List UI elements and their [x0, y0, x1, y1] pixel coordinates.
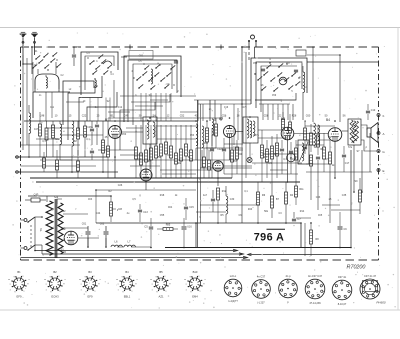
wire osc drop 293: [292, 104, 294, 120]
svg-text:C47: C47: [34, 129, 39, 131]
tuner1 staircase a: [63, 81, 94, 125]
resistor RT5: [155, 146, 158, 158]
antenna A2: [32, 34, 38, 38]
wire bus mid4: [21, 165, 97, 167]
wire bus v5: [220, 104, 222, 121]
tube B2: [224, 126, 236, 138]
svg-text:B2: B2: [53, 270, 57, 274]
svg-text:C16: C16: [224, 107, 229, 109]
fuse C45: [31, 198, 40, 202]
tube B5 (triode): [213, 161, 223, 171]
wire conv h1: [120, 95, 196, 97]
wire mid extra h1: [46, 127, 72, 129]
wire mid h12: [294, 133, 328, 135]
resistor R2: [45, 128, 48, 140]
svg-text:C37 4n 47: C37 4n 47: [364, 274, 377, 278]
wire ps v7: [95, 190, 97, 196]
tuner1 staircase d: [87, 92, 117, 121]
osc switch contact 1: [258, 76, 262, 80]
coil L5: [202, 126, 204, 130]
svg-text:su: su: [150, 279, 152, 281]
wire T6 tap S2: [63, 213, 88, 215]
resistor R26: [323, 147, 326, 159]
wire ps h1: [63, 227, 88, 229]
resistor R3: [52, 125, 55, 138]
socket diagram B6 (dense): [360, 279, 380, 299]
svg-text:R14: R14: [300, 210, 305, 213]
capacitor C14: [303, 146, 307, 148]
tube socket diagram B4: [121, 278, 132, 289]
wire top h2: [121, 56, 127, 58]
svg-text:EM4: EM4: [192, 295, 198, 299]
wire conv v1: [233, 104, 235, 145]
svg-text:C48a: C48a: [87, 127, 93, 129]
wire clusterB drop2: [113, 80, 115, 118]
wire bus top-mid: [24, 120, 198, 122]
svg-text:C59: C59: [272, 95, 277, 97]
terminal b: [377, 114, 380, 117]
wire ps h4: [96, 189, 151, 191]
wire clusterB drop: [89, 98, 91, 122]
coil L8: [226, 196, 228, 200]
capacitor U16: [182, 226, 187, 228]
output transformer T2: [348, 119, 361, 145]
wire long v 197: [197, 100, 199, 248]
capacitor C12b: [289, 150, 293, 152]
wire mid extra h3: [126, 127, 143, 129]
resistor R16: [231, 150, 234, 162]
wire mid h14: [200, 159, 238, 161]
frame tick x32: [31, 46, 33, 48]
wire osc drop 288: [287, 104, 289, 120]
resistor R20b: [276, 143, 279, 156]
grid cap X1: [247, 157, 252, 162]
796A box top wire: [151, 222, 301, 224]
wire bus out: [306, 171, 372, 173]
output transformer extra winding: [353, 121, 356, 143]
wire clusterA v3: [55, 62, 57, 74]
wire mid extra h13: [224, 165, 252, 167]
transformer T6 core: [54, 199, 56, 258]
wire 223 bus left: [96, 222, 151, 224]
wire out v2: [369, 133, 371, 172]
wire clusterC drop: [155, 93, 157, 121]
svg-text:su: su: [8, 279, 10, 281]
svg-text:C5: C5: [144, 225, 148, 229]
wire mid extra h6: [224, 143, 243, 145]
svg-text:4n-C37 C47: 4n-C37 C47: [308, 274, 323, 278]
svg-text:B4: B4: [326, 118, 330, 122]
filter cap C62: [105, 226, 107, 231]
osc trimmer b: [261, 68, 265, 70]
osc coil circle: [279, 77, 287, 85]
wire right top drop2: [339, 55, 341, 122]
wire top h1: [194, 99, 251, 101]
svg-text:C22a: C22a: [217, 149, 223, 151]
capacitor C31: [211, 198, 215, 200]
capacitor C16: [316, 156, 320, 158]
wire mid v B5: [217, 171, 219, 186]
resistor RT9: [175, 153, 178, 164]
wire mesh a: [66, 101, 84, 103]
resistor R5c: [107, 146, 110, 157]
IF transformer S5: [243, 117, 258, 143]
choke L6: [111, 245, 115, 247]
svg-text:C44: C44: [96, 212, 101, 215]
svg-text:C10: C10: [371, 109, 376, 112]
tube socket diagram B1: [13, 278, 24, 289]
resistor R27: [329, 152, 332, 164]
wire out v: [361, 150, 363, 192]
wire osc drop 278: [277, 104, 279, 120]
scan page right edge: [397, 28, 399, 311]
svg-text:2M: 2M: [73, 140, 76, 143]
wire bus det: [252, 162, 302, 164]
filter cap C61a: [87, 226, 89, 231]
wire mid h13: [342, 130, 348, 132]
wire T6 tap mid: [63, 239, 65, 241]
capacitor C4b: [95, 124, 99, 126]
clusterC switch contacts: [137, 76, 141, 80]
wire clusterA v2: [37, 69, 39, 74]
wire mid extra h16: [40, 159, 72, 161]
svg-text:Ld Ln: Ld Ln: [230, 274, 237, 278]
terminal left T2: [16, 171, 19, 174]
osc loop c: [261, 66, 297, 112]
wire mid extra h12: [36, 138, 60, 140]
osc switch contact 7: [279, 63, 283, 67]
circled R symbol: [287, 153, 296, 162]
wire bus v2: [214, 100, 216, 121]
svg-text:B2: B2: [219, 117, 223, 121]
svg-text:S7a: S7a: [348, 147, 353, 149]
wire bus r2: [224, 173, 298, 175]
svg-text:U16: U16: [187, 226, 192, 229]
wire mid extra h18: [162, 173, 196, 175]
tuner1 coil squiggle: [95, 80, 96, 83]
wire mid v S5: [249, 143, 251, 157]
clusterC trimmer: [174, 60, 178, 62]
resistor R31: [217, 188, 220, 200]
osc switch contact 11: [296, 81, 300, 85]
wire clusterB drop: [105, 98, 107, 122]
wire mid v B7: [145, 181, 147, 190]
svg-text:C30: C30: [230, 198, 235, 201]
antenna coil squiggle: [46, 77, 47, 80]
boxed variable coil S8: [298, 140, 309, 164]
wire bus v4: [245, 52, 247, 117]
svg-text:4u7: 4u7: [203, 194, 208, 197]
osc switch contact 10: [274, 87, 278, 91]
resistor R85: [163, 228, 173, 231]
wire clusterA down: [32, 92, 34, 118]
coil L4: [196, 124, 198, 128]
wire bus v1: [209, 100, 211, 121]
svg-text:C13: C13: [143, 211, 148, 214]
svg-text:C17v: C17v: [241, 107, 247, 109]
resistor R20: [271, 146, 274, 159]
svg-text:8-10,07: 8-10,07: [338, 303, 347, 306]
clusterB switch contacts: [90, 60, 94, 64]
wire mid v B1: [114, 139, 116, 179]
clusterC dots: [143, 63, 144, 64]
wire bus osc-l: [200, 167, 252, 169]
osc switch contact 4: [278, 72, 282, 76]
coil L2: [60, 124, 62, 127]
svg-text:C53: C53: [190, 135, 195, 137]
svg-text:C8: C8: [118, 207, 122, 211]
resistor R30: [110, 202, 113, 216]
tube socket diagram B3: [84, 278, 95, 289]
wire mesh c: [262, 99, 282, 101]
resistor R32: [257, 192, 260, 205]
wire C8 link: [111, 208, 116, 210]
resistor R1: [39, 124, 42, 136]
IF coil pair S6: [314, 123, 316, 127]
terminal left T1: [16, 156, 19, 159]
resistor R33: [271, 196, 274, 208]
svg-text:R28: R28: [292, 115, 297, 118]
resistor R23: [310, 133, 313, 145]
clusterB trimmer C61: [72, 54, 76, 56]
speaker: [367, 128, 371, 137]
resistor R37: [310, 230, 313, 244]
svg-text:C17: C17: [345, 162, 350, 165]
resistor RR1: [282, 119, 285, 130]
capacitor C13a: [138, 209, 142, 211]
capacitor C5: [149, 226, 153, 228]
svg-text:C58: C58: [264, 115, 269, 118]
resistor R5: [84, 126, 87, 137]
mains switch SK2: [28, 245, 35, 250]
svg-text:su: su: [184, 279, 186, 281]
clusterC loop a: [124, 56, 181, 122]
frame tick x221: [220, 45, 222, 50]
antenna coil dome: [35, 74, 59, 89]
svg-text:C56: C56: [253, 63, 258, 65]
wire mid extra h20: [270, 169, 287, 171]
capacitor C18: [366, 110, 370, 112]
svg-text:E: E: [382, 169, 384, 173]
osc switch contact 8: [267, 64, 271, 68]
wire lamp feed: [248, 47, 250, 60]
svg-text:4n p: 4n p: [285, 274, 291, 278]
wire mid h10: [236, 131, 244, 133]
resistor RT10: [180, 149, 183, 161]
wire T6 top leads: [46, 196, 48, 202]
wire clusterA join: [23, 55, 33, 64]
wire mid extra h7: [258, 137, 287, 139]
resistor R17: [236, 147, 239, 159]
junction dots: [114, 120, 116, 122]
capacitor C4: [90, 128, 94, 130]
wire clusterC drop: [150, 93, 152, 121]
wire 223 drop: [95, 196, 97, 223]
clusterC bottom wiring: [131, 94, 170, 102]
wire conv v2: [237, 108, 239, 140]
svg-text:PH600: PH600: [376, 301, 386, 305]
wire mid join2: [202, 104, 204, 121]
wire bus low1: [30, 177, 232, 179]
terminal G: [377, 150, 380, 153]
wire h top mid: [198, 103, 251, 105]
socket diagram at x=342: [332, 280, 352, 300]
clusterB box inner: [85, 56, 114, 90]
svg-text:C33: C33: [316, 196, 321, 199]
svg-text:B4: B4: [125, 270, 129, 274]
wire mid extra h11: [98, 149, 136, 151]
tube B1: [109, 126, 122, 139]
transformer T6 secondary: [58, 203, 63, 254]
IF S5 extra coil: [250, 121, 252, 124]
svg-text:C57: C57: [286, 63, 291, 65]
bus line 2: [42, 253, 242, 255]
clusterB arc: [103, 61, 112, 64]
capacitor C7: [292, 218, 296, 220]
resistor RR2: [289, 122, 292, 133]
mains dashdot link: [30, 225, 32, 247]
wire mid extra h14: [306, 163, 330, 165]
wire mesh f: [180, 111, 198, 113]
osc switch contact 12: [262, 86, 266, 90]
wire mid extra h10: [296, 144, 324, 146]
svg-text:S2a: S2a: [54, 197, 59, 199]
osc switch contact 2: [264, 71, 268, 75]
svg-text:1-4(4)7?: 1-4(4)7?: [228, 300, 238, 303]
svg-text:C64: C64: [168, 207, 173, 209]
svg-text:4?-14,236: 4?-14,236: [309, 302, 321, 305]
wire mesh e: [108, 111, 130, 113]
coil L3: [72, 121, 74, 125]
wire T6 tap S3: [63, 251, 66, 253]
capacitor C9: [210, 148, 214, 150]
resistor RT11: [185, 144, 188, 156]
rectifier tube B6: [64, 231, 78, 245]
resistor R4: [77, 128, 80, 139]
resistor R25: [317, 135, 320, 147]
wire conv h3: [196, 147, 243, 149]
tuner1 staircase c: [79, 76, 102, 130]
wire ps h2: [78, 237, 99, 239]
796A box left wire: [195, 223, 197, 248]
wire speaker leads: [361, 125, 367, 130]
resistor R18: [261, 145, 264, 158]
clusterA switch contacts: [33, 64, 37, 68]
svg-text:B1: B1: [105, 118, 109, 122]
wire clusterC drop: [140, 93, 142, 121]
wire mesh d: [318, 139, 330, 141]
wire v 305 ext: [304, 223, 306, 256]
wire right low v1: [350, 150, 352, 248]
resistor R24: [310, 155, 313, 166]
svg-text:1M: 1M: [147, 160, 150, 163]
wire mid h9: [157, 138, 196, 140]
wire left v3: [32, 62, 34, 118]
wire bus AF: [60, 159, 200, 161]
svg-text:L7: L7: [128, 240, 131, 244]
wire clusterC drop: [165, 93, 167, 121]
mains switch SK1: [28, 217, 35, 222]
coil L1: [29, 113, 31, 116]
wire mid extra h15: [130, 165, 160, 167]
resistor RT2: [140, 153, 143, 165]
resistor RT4: [150, 148, 153, 160]
osc switch contact 6: [292, 72, 296, 76]
tube socket diagram B10: [189, 278, 200, 289]
antenna coil base: [33, 91, 70, 93]
svg-text:C12: C12: [118, 107, 123, 109]
wire top right h2: [307, 54, 340, 56]
socket diagram at x=315: [305, 279, 325, 299]
svg-text:A: A: [382, 132, 384, 136]
tube B3: [281, 127, 294, 140]
capacitor C17: [342, 154, 346, 156]
osc loop a: [251, 58, 307, 104]
svg-text:C15: C15: [189, 206, 194, 209]
resistor RT1: [135, 147, 138, 159]
tube socket diagram B2: [49, 278, 60, 289]
tube socket diagram B5: [155, 278, 166, 289]
svg-text:C7: C7: [297, 217, 301, 221]
svg-text:C52: C52: [180, 115, 185, 118]
svg-text:C60: C60: [306, 115, 311, 118]
frame tick x242: [241, 46, 243, 48]
wire mid join: [197, 100, 199, 121]
svg-text:B6: B6: [62, 227, 66, 231]
svg-text:B1: B1: [17, 270, 21, 274]
svg-text:C26: C26: [118, 184, 123, 187]
svg-text:T6: T6: [39, 228, 43, 232]
svg-text:4n C37: 4n C37: [257, 275, 266, 279]
wire mid v B2: [229, 138, 231, 161]
wire mid h7: [122, 131, 144, 133]
resistor RM2: [208, 160, 211, 170]
resistor RT3: [145, 150, 148, 162]
svg-text:R70200: R70200: [347, 265, 366, 271]
right top coil: [303, 72, 305, 75]
svg-text:R41: R41: [204, 143, 209, 145]
wire mid extra h9: [305, 125, 335, 127]
wire bus v3: [241, 47, 243, 117]
wire conv h2: [206, 147, 216, 149]
wire ps h5: [117, 246, 124, 248]
796A box bottom wire: [165, 247, 351, 249]
chassis frame left (dash-dot): [20, 47, 22, 260]
svg-text:su: su: [44, 279, 46, 281]
wire antenna1 drop: [22, 55, 24, 150]
antenna A1: [20, 34, 26, 38]
mains terminal P1: [24, 219, 27, 222]
junction dots 2: [129, 46, 131, 48]
scan speckle: [183, 185, 185, 187]
resistor R5b: [102, 140, 105, 153]
wire mid v B4: [334, 141, 336, 178]
socket diagram at x=233: [224, 279, 242, 297]
small box top right: [296, 50, 306, 56]
svg-text:C50: C50: [122, 134, 127, 136]
osc switch contact 5: [285, 77, 289, 81]
wire osc drop 283: [282, 104, 284, 120]
wire clusterB drop: [109, 98, 111, 122]
wire ps h4b: [151, 189, 196, 191]
wire bus low2: [36, 181, 300, 183]
wire clusterC drop: [145, 93, 147, 121]
capacitor C12: [280, 148, 284, 150]
wire lower h2: [200, 204, 260, 206]
osc switch contact 9: [289, 85, 293, 89]
svg-text:EF9: EF9: [17, 295, 22, 299]
wire ps v1: [87, 238, 89, 247]
